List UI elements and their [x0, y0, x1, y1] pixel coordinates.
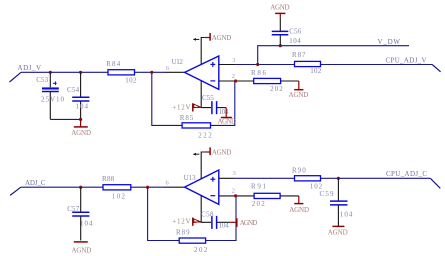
svg-text:C57: C57	[67, 205, 80, 213]
wire ADJ_C entry diagonal	[10, 187, 21, 195]
svg-text:2: 2	[232, 73, 235, 80]
wire ADJ_V main	[21, 71, 165, 73]
capacitor C56	[272, 18, 302, 46]
svg-text:R87: R87	[292, 51, 306, 59]
svg-text:+12V: +12V	[172, 218, 190, 226]
power port AGND above U12	[205, 33, 232, 42]
node junction feedback tap (bottom)	[146, 186, 149, 189]
node junction caps bottom	[79, 118, 82, 121]
svg-text:CPU_ADJ_V: CPU_ADJ_V	[386, 56, 427, 64]
svg-text:104: 104	[80, 220, 93, 228]
svg-text:R85: R85	[180, 114, 194, 122]
power port AGND (C56)	[270, 3, 289, 17]
svg-text:25V10: 25V10	[41, 96, 65, 104]
node junction C53 tap	[49, 71, 52, 74]
node junction C56	[279, 44, 282, 47]
capacitor C57	[67, 187, 93, 240]
svg-text:R91: R91	[251, 183, 267, 191]
svg-text:AGND: AGND	[218, 117, 237, 125]
svg-text:AGND: AGND	[72, 246, 92, 254]
svg-text:C55: C55	[202, 94, 214, 102]
wire CPU_ADJ_C exit diagonal	[430, 178, 440, 188]
svg-text:CPU_ADJ_C: CPU_ADJ_C	[386, 170, 427, 178]
ground AGND (C55)	[218, 108, 237, 126]
resistor R88	[102, 175, 131, 201]
wire caps bottom rail	[50, 118, 80, 120]
op-amp U12 bottom power pin	[201, 81, 211, 108]
ground AGND (R91)	[289, 196, 309, 214]
power port +12V (U13)	[172, 218, 202, 226]
ground AGND (R86)	[289, 81, 309, 99]
op-amp U12 pin 6 wire	[165, 71, 185, 73]
op-amp U13 bottom power pin	[201, 195, 211, 222]
resistor R87	[292, 51, 322, 75]
node junction feedback tap	[150, 71, 153, 74]
node junction C54 tap	[79, 71, 82, 74]
op-amp U13	[184, 170, 219, 204]
capacitor C59	[320, 178, 353, 226]
op-amp U13 top power pin	[201, 152, 205, 179]
node junction C57 tap	[79, 186, 82, 189]
svg-text:AGND: AGND	[212, 149, 232, 157]
svg-text:AGND: AGND	[289, 206, 309, 214]
svg-text:AGND: AGND	[328, 229, 348, 237]
power port +12V (U12)	[172, 103, 202, 111]
node junction C59 tap	[337, 177, 340, 180]
svg-text:ADJ_V: ADJ_V	[18, 64, 42, 72]
wire ADJ_V entry diagonal	[10, 72, 22, 82]
svg-text:202: 202	[194, 246, 208, 254]
ground AGND (C59)	[328, 226, 348, 236]
svg-text:202: 202	[252, 200, 265, 208]
svg-text:3: 3	[233, 170, 236, 177]
svg-text:V_DW: V_DW	[378, 38, 401, 46]
wire feedback loop (bottom)	[148, 187, 236, 240]
capacitor C58	[201, 211, 230, 230]
svg-text:C56: C56	[289, 27, 302, 35]
svg-text:222: 222	[198, 132, 212, 140]
svg-text:104: 104	[340, 210, 353, 218]
node junction pin2 / feedback (bottom)	[234, 194, 237, 197]
svg-text:104: 104	[76, 102, 89, 110]
node junction pin3 / C56 branch	[256, 63, 259, 66]
wire feedback loop	[152, 72, 235, 125]
wire pin 3 row (bottom)	[219, 177, 430, 179]
svg-text:ADJ_C: ADJ_C	[25, 179, 46, 187]
resistor R91	[251, 183, 299, 208]
svg-text:C53: C53	[36, 76, 48, 84]
op-amp U13 pin 6 wire	[165, 186, 185, 188]
svg-text:U13: U13	[184, 174, 197, 182]
svg-text:C59: C59	[320, 190, 335, 198]
power port AGND (C58, bar right)	[230, 218, 257, 227]
resistor R89	[176, 228, 208, 254]
op-amp U12	[172, 56, 219, 89]
svg-text:104: 104	[289, 37, 301, 45]
svg-text:AGND: AGND	[270, 3, 289, 11]
svg-text:104: 104	[219, 108, 230, 116]
svg-text:3: 3	[232, 57, 235, 64]
node junction pin2 / feedback	[234, 79, 237, 82]
svg-text:AGND: AGND	[289, 91, 309, 99]
svg-text:C58: C58	[201, 211, 214, 219]
svg-text:U12: U12	[172, 58, 184, 66]
op-amp U12 top power pin	[201, 38, 205, 65]
resistor R90	[292, 166, 323, 190]
ground AGND (C57)	[72, 242, 92, 255]
svg-text:2: 2	[232, 187, 235, 194]
wire C56 / V_DW branch	[258, 46, 409, 65]
ground AGND input caps	[71, 119, 91, 137]
resistor R86	[251, 69, 299, 93]
svg-text:102: 102	[112, 192, 126, 200]
resistor R84	[106, 60, 137, 84]
svg-text:104: 104	[219, 222, 230, 230]
svg-text:R86: R86	[251, 69, 267, 77]
svg-text:102: 102	[125, 76, 137, 84]
svg-text:+12V: +12V	[172, 103, 190, 111]
wire pin 3 row	[219, 64, 432, 66]
svg-text:AGND: AGND	[240, 219, 258, 227]
svg-text:C54: C54	[67, 86, 80, 94]
svg-text:R88: R88	[102, 175, 115, 183]
svg-text:102: 102	[310, 67, 322, 75]
arrow marker bottom	[193, 153, 199, 156]
wire ADJ_C main	[21, 186, 165, 188]
svg-text:R89: R89	[176, 228, 190, 236]
svg-text:AGND: AGND	[71, 129, 91, 137]
wire pin 2 row	[219, 80, 254, 82]
resistor R85	[180, 114, 213, 140]
svg-text:R84: R84	[106, 60, 121, 68]
wire pin 2 row (bottom)	[219, 195, 254, 197]
arrow marker top	[193, 38, 199, 41]
capacitor C53	[36, 72, 64, 119]
svg-text:202: 202	[270, 85, 283, 93]
wire CPU_ADJ_V exit diagonal	[432, 65, 440, 72]
svg-text:AGND: AGND	[212, 34, 232, 42]
capacitor C55	[202, 94, 229, 116]
svg-text:R90: R90	[292, 166, 306, 174]
capacitor C54	[67, 72, 89, 119]
power port AGND above U13	[205, 147, 232, 156]
